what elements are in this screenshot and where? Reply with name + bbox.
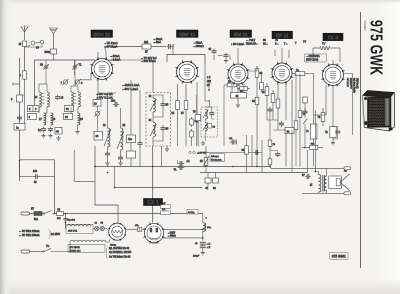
box 5/6 [28, 106, 40, 112]
coil 18 [51, 113, 56, 125]
funnel coupling box [45, 49, 57, 54]
wire 104 down [54, 160, 56, 214]
svg-text:5/10A 80←: 5/10A 80← [246, 42, 258, 45]
cap 67 [209, 48, 217, 60]
svg-text:23a: 23a [111, 100, 116, 103]
svg-text:AU5 CY1: AU5 CY1 [68, 230, 78, 233]
coil 15 [71, 71, 80, 107]
left tick [13, 83, 20, 86]
svg-text:EBF 11: EBF 11 [179, 32, 195, 38]
IF1 wires [153, 95, 163, 146]
anno EBF right [207, 76, 212, 87]
bottom switch row4 [43, 246, 51, 252]
drop x95 [94, 146, 96, 167]
filter caps [193, 242, 211, 257]
svg-text:2: 2 [11, 98, 13, 101]
osc wires [98, 80, 123, 166]
rail y152 [204, 150, 262, 155]
EM11 wires [232, 83, 244, 108]
EM11 box 90 [231, 93, 247, 99]
antenna funnel [50, 28, 58, 49]
svg-text:55: 55 [200, 160, 203, 163]
rail y160 [20, 159, 55, 161]
EBF right drop [208, 82, 210, 91]
wire tuner bottoms [39, 107, 78, 113]
svg-text:100µF: 100µF [193, 256, 200, 258]
svg-text:1: 1 [20, 73, 22, 77]
anno Adler [210, 154, 225, 162]
dial lamp 50 [100, 223, 104, 231]
box 47 small [161, 203, 171, 209]
svg-text:49: 49 [95, 223, 98, 225]
EF link y120 [267, 120, 286, 130]
svg-text:47: 47 [163, 203, 166, 205]
anno TH12mA [104, 41, 118, 49]
svg-text:19: 19 [80, 118, 83, 121]
svg-text:65: 65 [260, 72, 263, 75]
CX1 output lines [163, 230, 203, 238]
tone switch column [303, 97, 308, 148]
IF1 cap 46 [161, 125, 169, 133]
drop x257 [256, 120, 258, 167]
CL4 bypass cap [333, 127, 340, 140]
svg-text:104: 104 [33, 170, 38, 173]
svg-text:67: 67 [209, 48, 212, 51]
svg-text:→TH 12mA: →TH 12mA [104, 41, 118, 45]
heater row B coils [51, 239, 110, 251]
svg-text:29: 29 [40, 63, 43, 67]
svg-text:10a: 10a [128, 138, 133, 141]
label ECH11 [91, 30, 113, 38]
phono cap A4 [174, 160, 191, 172]
svg-text:←100mA: ←100mA [193, 44, 204, 48]
EF box 64 [285, 128, 294, 134]
IF2 dashed box [201, 107, 218, 137]
left col box 1a [14, 124, 25, 131]
svg-text:7c: 7c [306, 130, 309, 133]
box 500 [302, 144, 324, 167]
heater row A coils [65, 224, 93, 233]
tube EM11 [227, 63, 250, 86]
svg-text:7V: 7V [303, 41, 306, 44]
comp 61 62 [205, 173, 219, 191]
IF2 wires [201, 90, 215, 146]
box PA [161, 208, 171, 215]
svg-text:Au 702 keine: Ers 33: Au 702 keine: Ers 33 [109, 255, 131, 258]
svg-text:5F: 5F [262, 91, 265, 94]
CL4 cathode column [306, 95, 317, 148]
antenna plug 30 [28, 40, 44, 49]
osc cap 23a [111, 100, 119, 108]
svg-text:P.A: P.A [162, 208, 166, 211]
svg-text:17: 17 [39, 118, 42, 121]
dial lamp 49 [95, 223, 99, 231]
cap 13 [55, 95, 64, 101]
svg-text:ECH11 CL4: ECH11 CL4 [70, 250, 82, 252]
drop x307 [307, 150, 309, 173]
svg-text:7←: 7← [284, 42, 288, 45]
svg-text:202: 202 [207, 80, 212, 83]
coil 17 [39, 113, 46, 125]
EF res A [262, 83, 269, 99]
CL4 top box anno [305, 54, 327, 62]
coil 19 [78, 113, 84, 125]
left col bend [19, 160, 21, 177]
box 50 row1 [57, 209, 64, 220]
CL4 bias box [325, 86, 336, 146]
osc cap b [118, 155, 123, 162]
svg-text:bei 250V: bei 250V [51, 234, 61, 236]
osc box 10a [127, 135, 136, 143]
EF11 top anno [246, 39, 306, 45]
svg-text:a 2: a 2 [207, 76, 211, 79]
CL4 right wire [344, 74, 353, 136]
caption near radio [349, 78, 359, 94]
tuning cap 29 [40, 60, 49, 71]
svg-text:50µ 104: 50µ 104 [67, 220, 76, 222]
tuner frame [35, 60, 96, 110]
IF2 coil b [203, 123, 208, 132]
svg-text:500: 500 [57, 218, 61, 220]
svg-text:(NSV 114a): (NSV 114a) [306, 59, 319, 62]
EM res 66 [252, 95, 259, 107]
tube ECH11 [90, 57, 114, 81]
rail y172 [200, 172, 308, 174]
svg-text:← 6V 40Hz 210mA: ← 6V 40Hz 210mA [19, 230, 40, 233]
svg-text:←98V 0.6 mA: ←98V 0.6 mA [96, 92, 113, 96]
EM res 65b [260, 80, 264, 92]
svg-text:+ E: + E [207, 247, 211, 249]
volume pot [200, 155, 209, 168]
svg-text:←98V 1.2mA: ←98V 1.2mA [122, 87, 138, 91]
EF cap c [268, 107, 273, 114]
svg-text:71: 71 [79, 63, 82, 67]
EF11 top wires [275, 48, 289, 63]
svg-text:9: 9 [81, 81, 83, 85]
IF2 box 56i [208, 124, 216, 129]
svg-text:TA: TA [174, 169, 177, 172]
cap 104 [20, 170, 55, 184]
svg-text:NT: NT [31, 209, 35, 211]
EF wires [267, 80, 292, 130]
svg-text:2F: 2F [145, 51, 148, 54]
coil 16 [35, 71, 50, 107]
det wires [197, 95, 199, 146]
svg-text:58: 58 [213, 127, 216, 129]
svg-text:9←: 9← [275, 42, 279, 45]
svg-text:21: 21 [103, 124, 106, 127]
svg-text:47a: 47a [135, 225, 139, 227]
svg-text:57: 57 [181, 112, 184, 115]
svg-text:1FY ABF11: 1FY ABF11 [70, 246, 81, 249]
label CL4 [323, 33, 343, 41]
IF1 dashed box [146, 93, 171, 147]
junction dots [19, 160, 316, 224]
mains fuse row1 [34, 212, 44, 221]
svg-text:50: 50 [34, 182, 37, 184]
svg-text:45: 45 [166, 104, 169, 107]
line y181 [74, 150, 95, 181]
svg-text:97: 97 [302, 174, 305, 177]
bottom plug row4 [21, 250, 44, 253]
EBF resistor 58a [190, 129, 194, 139]
drop x164.5 [165, 146, 169, 152]
trimmer 7 [61, 79, 69, 85]
svg-text:66: 66 [252, 100, 255, 103]
mains plug row1 [21, 209, 35, 216]
jack circles [189, 151, 207, 154]
CL4 right anno [346, 78, 353, 89]
anno TV [141, 56, 157, 63]
svg-text:44: 44 [149, 119, 152, 122]
left col box 2 [11, 95, 23, 102]
cap 97 [302, 174, 311, 179]
svg-text:79: 79 [273, 144, 276, 146]
det res 59 [193, 112, 201, 121]
box A4 30u [187, 210, 198, 215]
box 4/12 [28, 114, 37, 120]
svg-text:7b-Ers 104: 7b-Ers 104 [350, 78, 353, 89]
drop x286 [285, 134, 287, 167]
svg-text:+ E: + E [207, 244, 211, 246]
title 975 GWK [366, 20, 386, 75]
box 40 [55, 128, 62, 141]
svg-text:5F: 5F [172, 112, 175, 115]
osc cap on 140 [138, 90, 143, 167]
svg-text:30: 30 [36, 46, 39, 50]
svg-text:31: 31 [310, 183, 313, 186]
label EBF11 [177, 30, 199, 38]
EBF11 top frame [167, 47, 205, 64]
wire x95 to barretter top [95, 167, 118, 224]
rectifier CX1 [143, 222, 165, 244]
drop x300 [299, 120, 301, 167]
CX1 bottom arc [151, 242, 158, 244]
resistor 1 (ant) [20, 68, 27, 82]
osc coil 22 [117, 124, 126, 150]
tube CL4 [321, 63, 345, 87]
svg-text:56: 56 [242, 149, 245, 152]
cap 55a [229, 138, 236, 145]
rail y166 [95, 167, 344, 169]
osc v wires [130, 80, 132, 167]
svg-text:5002: 5002 [45, 51, 51, 54]
EF lower cap [279, 121, 284, 128]
res 60 h [237, 87, 250, 93]
osc box 20 [94, 132, 103, 141]
EM11 top wires [218, 48, 238, 63]
output transformer [310, 175, 327, 193]
radio cabinet illustration [362, 91, 395, 132]
svg-text:mit dem Radio: mit dem Radio [353, 78, 356, 94]
drop x114.5 [114, 167, 116, 188]
mains anno [19, 230, 61, 239]
svg-text:GW-Gerät: GW-Gerät [356, 78, 359, 89]
left col cap [17, 115, 22, 122]
res 74 [298, 74, 306, 121]
svg-text:50: 50 [101, 223, 104, 225]
svg-text:T: T [295, 42, 297, 45]
mains line row1 [64, 213, 203, 215]
svg-text:EM 11: EM 11 [234, 32, 248, 38]
svg-text:→8.3mA: →8.3mA [110, 58, 121, 62]
svg-text:Wechselstr.: Wechselstr. [211, 158, 222, 161]
left bus wire [19, 58, 21, 181]
svg-text:TV: TV [322, 43, 326, 46]
supply wire y46 [105, 46, 143, 48]
res 56 [242, 135, 249, 173]
EF res D [294, 74, 298, 167]
heater row A wires [93, 229, 108, 231]
label EM11 [230, 30, 252, 38]
svg-text:←102V: ←102V [168, 232, 176, 234]
svg-text:61: 61 [206, 187, 209, 190]
node x65 vertical [63, 213, 75, 229]
anno 202V [122, 83, 140, 91]
svg-text:18: 18 [53, 118, 56, 121]
svg-text:TO: TO [46, 246, 49, 248]
label EF11 [272, 31, 293, 39]
bottom right label box 975 GWK [330, 253, 349, 260]
EBF resistor 1M [190, 117, 198, 127]
res 71 h [292, 69, 314, 95]
funnel to frame [53, 54, 55, 60]
svg-text:292: 292 [144, 41, 149, 44]
divider line [360, 12, 362, 268]
drop x292 [291, 130, 293, 173]
drop x315 CL4 plate [314, 110, 316, 172]
heater listing box [68, 245, 105, 253]
osc box 10b [127, 151, 136, 158]
svg-text:7b: 7b [325, 131, 328, 134]
svg-text:CL 4: CL 4 [328, 35, 338, 41]
anno 97mA [110, 54, 121, 62]
res 58 h [224, 81, 240, 147]
svg-text:59: 59 [193, 112, 196, 114]
svg-text:kpl. 2EYWE: Ers 32: kpl. 2EYWE: Ers 32 [109, 247, 130, 250]
svg-text:975 GWK: 975 GWK [366, 20, 386, 75]
svg-text:+4.5V 30V: +4.5V 30V [197, 153, 207, 155]
svg-text:975 GWK: 975 GWK [332, 255, 347, 259]
box 54 [65, 106, 74, 112]
tuning cap 71 [72, 60, 82, 71]
OT wires [315, 172, 318, 194]
EBF wires down [178, 63, 206, 146]
antenna A1 [20, 26, 28, 40]
subtitle Schaltbild [363, 21, 366, 32]
res 73 [318, 108, 325, 126]
pot switch wires [205, 146, 207, 173]
svg-text:46: 46 [166, 128, 169, 131]
IF2 coil a [203, 110, 208, 120]
svg-text:←45mA: ←45mA [168, 235, 177, 238]
link 47a [126, 225, 145, 231]
resistor 292 [142, 41, 151, 54]
svg-text:Urdox: Urdox [110, 243, 117, 246]
svg-text:51A: 51A [34, 218, 39, 221]
osc cap a [105, 151, 110, 158]
svg-text:Adlerger: Adlerger [211, 155, 219, 158]
drop x270 [268, 113, 280, 167]
anno 98V [96, 92, 113, 100]
anno EBF top [193, 41, 204, 48]
svg-text:A4 30µ: A4 30µ [188, 211, 195, 214]
svg-text:2V: 2V [207, 84, 210, 87]
coil19 gnd [75, 125, 79, 134]
svg-text:Schaltbild: Schaltbild [363, 21, 366, 32]
cap 18a gnd [48, 127, 53, 138]
svg-text:CX 1: CX 1 [147, 200, 159, 206]
ECH11 top leads [98, 47, 106, 59]
speaker [329, 170, 350, 191]
cap 72 [300, 108, 308, 116]
svg-text:45: 45 [19, 43, 22, 46]
trimmer 9 [75, 79, 84, 85]
svg-text:↑ 89 4.3mA: ↑ 89 4.3mA [231, 42, 244, 46]
svg-text:Au NORMAL: 4/2 500: Au NORMAL: 4/2 500 [109, 251, 132, 254]
CL4 top res TV [313, 43, 340, 51]
wire plate to IF1 [108, 60, 153, 93]
svg-text:EF 11: EF 11 [276, 33, 289, 39]
anno 42mA [153, 37, 163, 44]
IF1 coil 44 [149, 119, 157, 137]
tube EBF11 [175, 60, 199, 84]
drop x252 [251, 135, 253, 167]
label CX1 [144, 199, 163, 206]
svg-text:43: 43 [149, 95, 152, 98]
choke 64a [202, 214, 212, 241]
EM res 65a [255, 66, 263, 80]
EM wires r [248, 66, 262, 120]
OT terminals [302, 167, 351, 195]
EBF resistor 57 [181, 88, 188, 122]
svg-text:50: 50 [58, 209, 61, 211]
wire ant col join [20, 82, 25, 124]
AVC line y187 [115, 187, 203, 189]
IF2 cap a [209, 111, 214, 117]
EBF resistor 5F [172, 88, 180, 122]
drop x152.7 [152, 146, 154, 199]
EM11 top anno [231, 42, 244, 46]
CX1 label wire [152, 199, 154, 223]
svg-text:7: 7 [61, 81, 63, 85]
svg-text:A4: A4 [187, 160, 191, 163]
lower text block [107, 247, 132, 259]
wire trim to grid [80, 73, 95, 80]
tube EF11 [271, 62, 294, 85]
svg-text:62: 62 [213, 187, 216, 190]
osc trimmer [95, 111, 101, 117]
svg-text:64a: 64a [207, 227, 211, 229]
svg-text:16: 16 [35, 96, 38, 99]
svg-text:→97mA: →97mA [110, 54, 120, 58]
svg-text:13: 13 [61, 97, 64, 100]
cap 12 gnd [38, 127, 46, 138]
supply wire cont [151, 44, 173, 49]
svg-text:← 6V 40Hz 206mA: ← 6V 40Hz 206mA [19, 234, 40, 237]
CL4 grid wire left [314, 85, 326, 115]
svg-text:ECH 11: ECH 11 [93, 32, 110, 38]
svg-text:12: 12 [38, 129, 41, 132]
EF res C [276, 95, 280, 112]
antenna series box 45 [19, 41, 27, 47]
drop x158.7 [161, 146, 163, 167]
svg-text:73: 73 [318, 116, 321, 119]
drop x262 [261, 140, 263, 173]
urdox barretter [108, 223, 125, 246]
wire antenna to tuner [25, 44, 43, 68]
svg-text:43: 43 [195, 243, 198, 245]
